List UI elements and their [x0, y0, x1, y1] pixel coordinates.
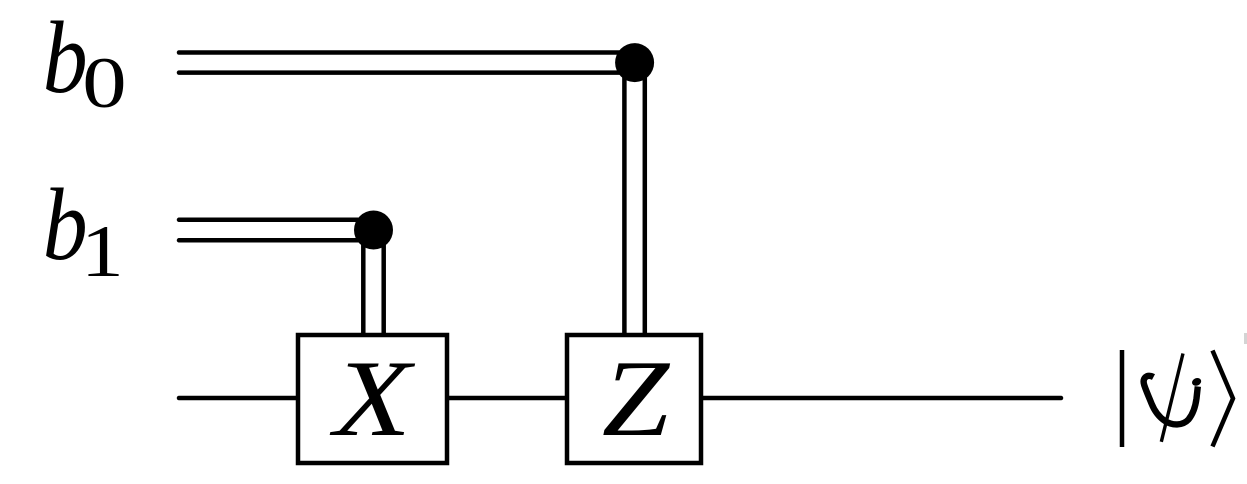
svg-text:b: b: [43, 0, 88, 114]
gate Z box: [567, 335, 701, 463]
gate Z label: [602, 337, 671, 459]
svg-text:1: 1: [81, 211, 124, 292]
node b0 label: [43, 0, 127, 123]
wire quantum segment left of X gate: [179, 396, 300, 401]
control dot on b1: [354, 211, 393, 250]
node output ket psi: left bar: [1120, 350, 1125, 447]
svg-text:0: 0: [82, 43, 126, 124]
svg-text:X: X: [330, 338, 417, 459]
wire classical b1 vertical drop to X gate: [363, 230, 383, 336]
svg-text:Z: Z: [602, 337, 671, 459]
node b1 label: [43, 167, 124, 292]
node output ket psi: psi glyph (right curl): [1191, 377, 1203, 388]
gate X box: [298, 335, 447, 463]
gate X label: [330, 338, 417, 459]
wire classical b1 (double horizontal): [179, 220, 374, 241]
wire quantum segment between X and Z gates: [445, 396, 569, 401]
wire classical b0 (double horizontal): [179, 53, 635, 73]
wire classical b0 vertical drop to Z gate: [624, 63, 644, 336]
node output ket psi: right angle bracket: [1213, 351, 1234, 447]
node output ket psi: psi glyph (slash): [1161, 354, 1183, 442]
node output ket psi: psi glyph (bowl): [1144, 376, 1198, 425]
wire quantum segment right of Z gate: [699, 396, 1061, 401]
artifact grey mark top right: [1244, 333, 1247, 344]
control dot on b0: [615, 43, 654, 82]
